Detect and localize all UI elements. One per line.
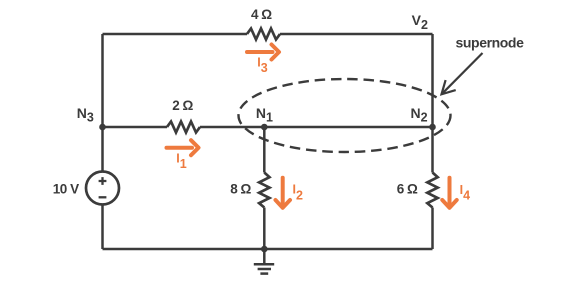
svg-text:2 Ω: 2 Ω — [172, 98, 193, 113]
current arrow I2 head — [276, 200, 291, 208]
wire top horizontal left segment — [103, 33, 248, 36]
svg-text:I2: I2 — [293, 183, 303, 203]
supernode pointer arrow line — [442, 53, 483, 94]
node N2 junction dot — [429, 124, 436, 131]
resistor 6Ω (right vertical) — [427, 173, 437, 208]
voltage source minus sign — [99, 196, 107, 198]
node N3 junction dot — [99, 124, 106, 131]
resistor 8Ω (middle vertical) — [259, 173, 269, 208]
wire right vertical middle (N2 to 6Ω) — [431, 127, 434, 173]
wire middle vertical upper (N1 to 8Ω) — [263, 127, 266, 173]
svg-text:8 Ω: 8 Ω — [230, 182, 251, 197]
ground node junction dot — [261, 246, 268, 253]
wire bottom horizontal — [103, 248, 433, 251]
resistor 2Ω (middle) — [167, 122, 200, 133]
current arrow I1 head — [191, 140, 199, 155]
svg-text:V2: V2 — [412, 12, 428, 32]
wire middle horizontal right segment (2Ω to N2) — [200, 126, 433, 129]
svg-text:N3: N3 — [77, 105, 94, 125]
resistor 4Ω (top) — [247, 29, 280, 40]
ground stub — [263, 249, 266, 264]
current arrow I3 head — [272, 45, 280, 60]
svg-text:supernode: supernode — [456, 35, 525, 51]
svg-text:N1: N1 — [256, 105, 273, 125]
svg-text:N2: N2 — [411, 105, 428, 125]
current arrow I3 shaft — [247, 50, 273, 54]
svg-text:6 Ω: 6 Ω — [397, 182, 418, 197]
supernode dashed ellipse — [239, 79, 451, 152]
node N1 junction dot — [261, 124, 268, 131]
current arrow I1 shaft — [167, 146, 193, 150]
svg-text:4 Ω: 4 Ω — [251, 7, 272, 22]
ground bar 3 — [260, 272, 268, 275]
ground bar 1 — [254, 263, 274, 266]
wire middle vertical lower (8Ω to ground node) — [263, 208, 266, 250]
current arrow I4 shaft — [448, 178, 452, 204]
wire left vertical lower (source to bottom wire) — [101, 205, 104, 250]
svg-text:I4: I4 — [460, 183, 470, 203]
svg-text:I1: I1 — [176, 152, 186, 172]
current arrow I2 shaft — [281, 178, 285, 204]
svg-text:I3: I3 — [257, 56, 267, 76]
wire middle horizontal left segment (N3 to 2Ω) — [103, 126, 168, 129]
wire right vertical upper (V2 to N2) — [431, 34, 434, 127]
wire left vertical upper (top wire to source) — [101, 34, 104, 172]
wire top horizontal right segment — [280, 33, 433, 36]
voltage source plus sign — [99, 177, 107, 185]
voltage source V1 circle — [86, 172, 119, 205]
ground bar 2 — [258, 268, 271, 271]
wire right vertical lower (6Ω to bottom wire) — [431, 208, 434, 250]
current arrow I4 head — [442, 200, 456, 208]
supernode pointer arrowhead — [442, 80, 456, 94]
svg-text:10 V: 10 V — [53, 182, 79, 197]
